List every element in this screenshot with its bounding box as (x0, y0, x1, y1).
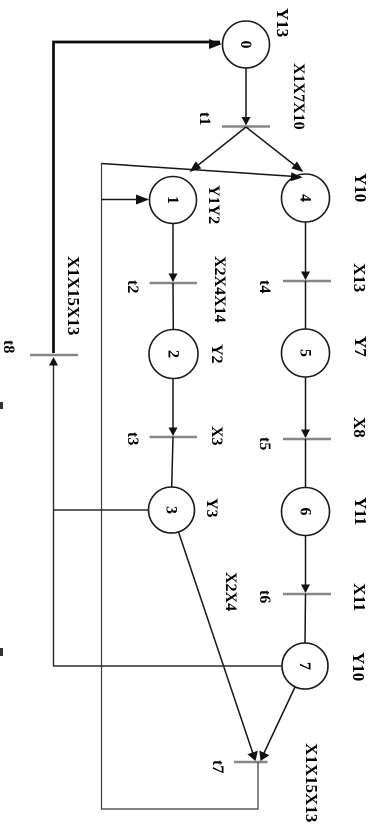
svg-text:Y10: Y10 (351, 173, 370, 202)
place P5 (282, 329, 330, 377)
wire t1 to P4 (diagonal) (246, 127, 302, 171)
svg-text:X13: X13 (350, 263, 369, 292)
svg-text:X1X15X13: X1X15X13 (64, 256, 83, 335)
wire t7 output: down, left, up the long vertical (102, 164, 259, 810)
wire t5 to P6 (305, 439, 307, 488)
transition t1 (222, 125, 270, 127)
transition t5 (283, 438, 331, 440)
wire P3 to t7 (diagonal) (179, 532, 255, 759)
wire t3 to P3 (172, 437, 173, 487)
svg-text:X3: X3 (208, 426, 225, 446)
svg-text:X2X4: X2X4 (222, 572, 239, 611)
transition t4 (283, 280, 331, 282)
wire P0 to t1 (245, 68, 247, 124)
place P3 (149, 487, 195, 533)
wire P3 to t8 (joins vertical) (54, 509, 149, 511)
svg-text:5: 5 (297, 349, 314, 357)
svg-text:X1X7X10: X1X7X10 (290, 63, 307, 130)
wire P7 to t7 (diagonal) (261, 687, 295, 760)
svg-text:t6: t6 (256, 590, 273, 603)
place P4 (282, 174, 330, 222)
svg-text:Y3: Y3 (203, 498, 220, 518)
wire t2 to P2 (172, 283, 174, 330)
wire t6 to P7 (304, 594, 307, 643)
svg-text:Y13: Y13 (273, 8, 292, 37)
svg-text:Y7: Y7 (351, 336, 370, 357)
wire P7 to t8: left along bottom then up (54, 359, 283, 666)
svg-text:7: 7 (296, 662, 313, 670)
place P6 (282, 488, 330, 536)
svg-text:t3: t3 (124, 432, 141, 445)
wire P5 to t5 (305, 377, 307, 437)
svg-text:X8: X8 (350, 417, 369, 438)
wire t8 output: up and right into P0 (thick) (54, 42, 221, 353)
svg-text:Y2: Y2 (208, 344, 225, 364)
svg-text:t7: t7 (209, 760, 226, 773)
svg-text:Y11: Y11 (351, 497, 370, 525)
place P1 (150, 177, 197, 224)
wire t7 to P4 (slanted top segment) (102, 164, 302, 177)
svg-text:Y1Y2: Y1Y2 (205, 185, 222, 224)
transition t3 (150, 436, 198, 438)
wire P2 to t3 (172, 379, 174, 436)
svg-text:X2X4X14: X2X4X14 (211, 256, 228, 323)
edge artifact tick 2 (0, 648, 3, 656)
svg-text:t5: t5 (256, 437, 273, 450)
svg-text:t8: t8 (0, 340, 17, 353)
svg-text:t1: t1 (196, 112, 213, 125)
svg-text:0: 0 (237, 41, 254, 49)
svg-text:Y10: Y10 (349, 652, 368, 681)
place P0 (223, 21, 270, 68)
svg-text:t4: t4 (256, 280, 273, 293)
svg-text:X11: X11 (350, 583, 369, 611)
wire t1 to P1 (diagonal) (191, 127, 246, 171)
svg-text:X1X15X13: X1X15X13 (302, 743, 321, 822)
wire P4 to t4 (305, 222, 307, 279)
svg-text:t2: t2 (124, 280, 141, 293)
svg-text:1: 1 (164, 196, 181, 204)
svg-text:3: 3 (163, 506, 180, 514)
wire t4 to P5 (305, 281, 307, 329)
place P7 (282, 643, 328, 689)
wire P6 to t6 (305, 536, 307, 593)
transition t6 (283, 593, 331, 595)
transition t2 (150, 282, 198, 284)
place P2 (149, 330, 198, 379)
svg-text:4: 4 (297, 194, 314, 202)
transition t8 (30, 354, 78, 356)
wire P1 to t2 (172, 224, 174, 282)
transition t7 (234, 761, 268, 763)
wire t7 to P1 (branch arrow) (102, 199, 148, 201)
svg-text:6: 6 (297, 508, 314, 516)
edge artifact tick 1 (0, 402, 3, 409)
svg-text:2: 2 (165, 350, 182, 358)
